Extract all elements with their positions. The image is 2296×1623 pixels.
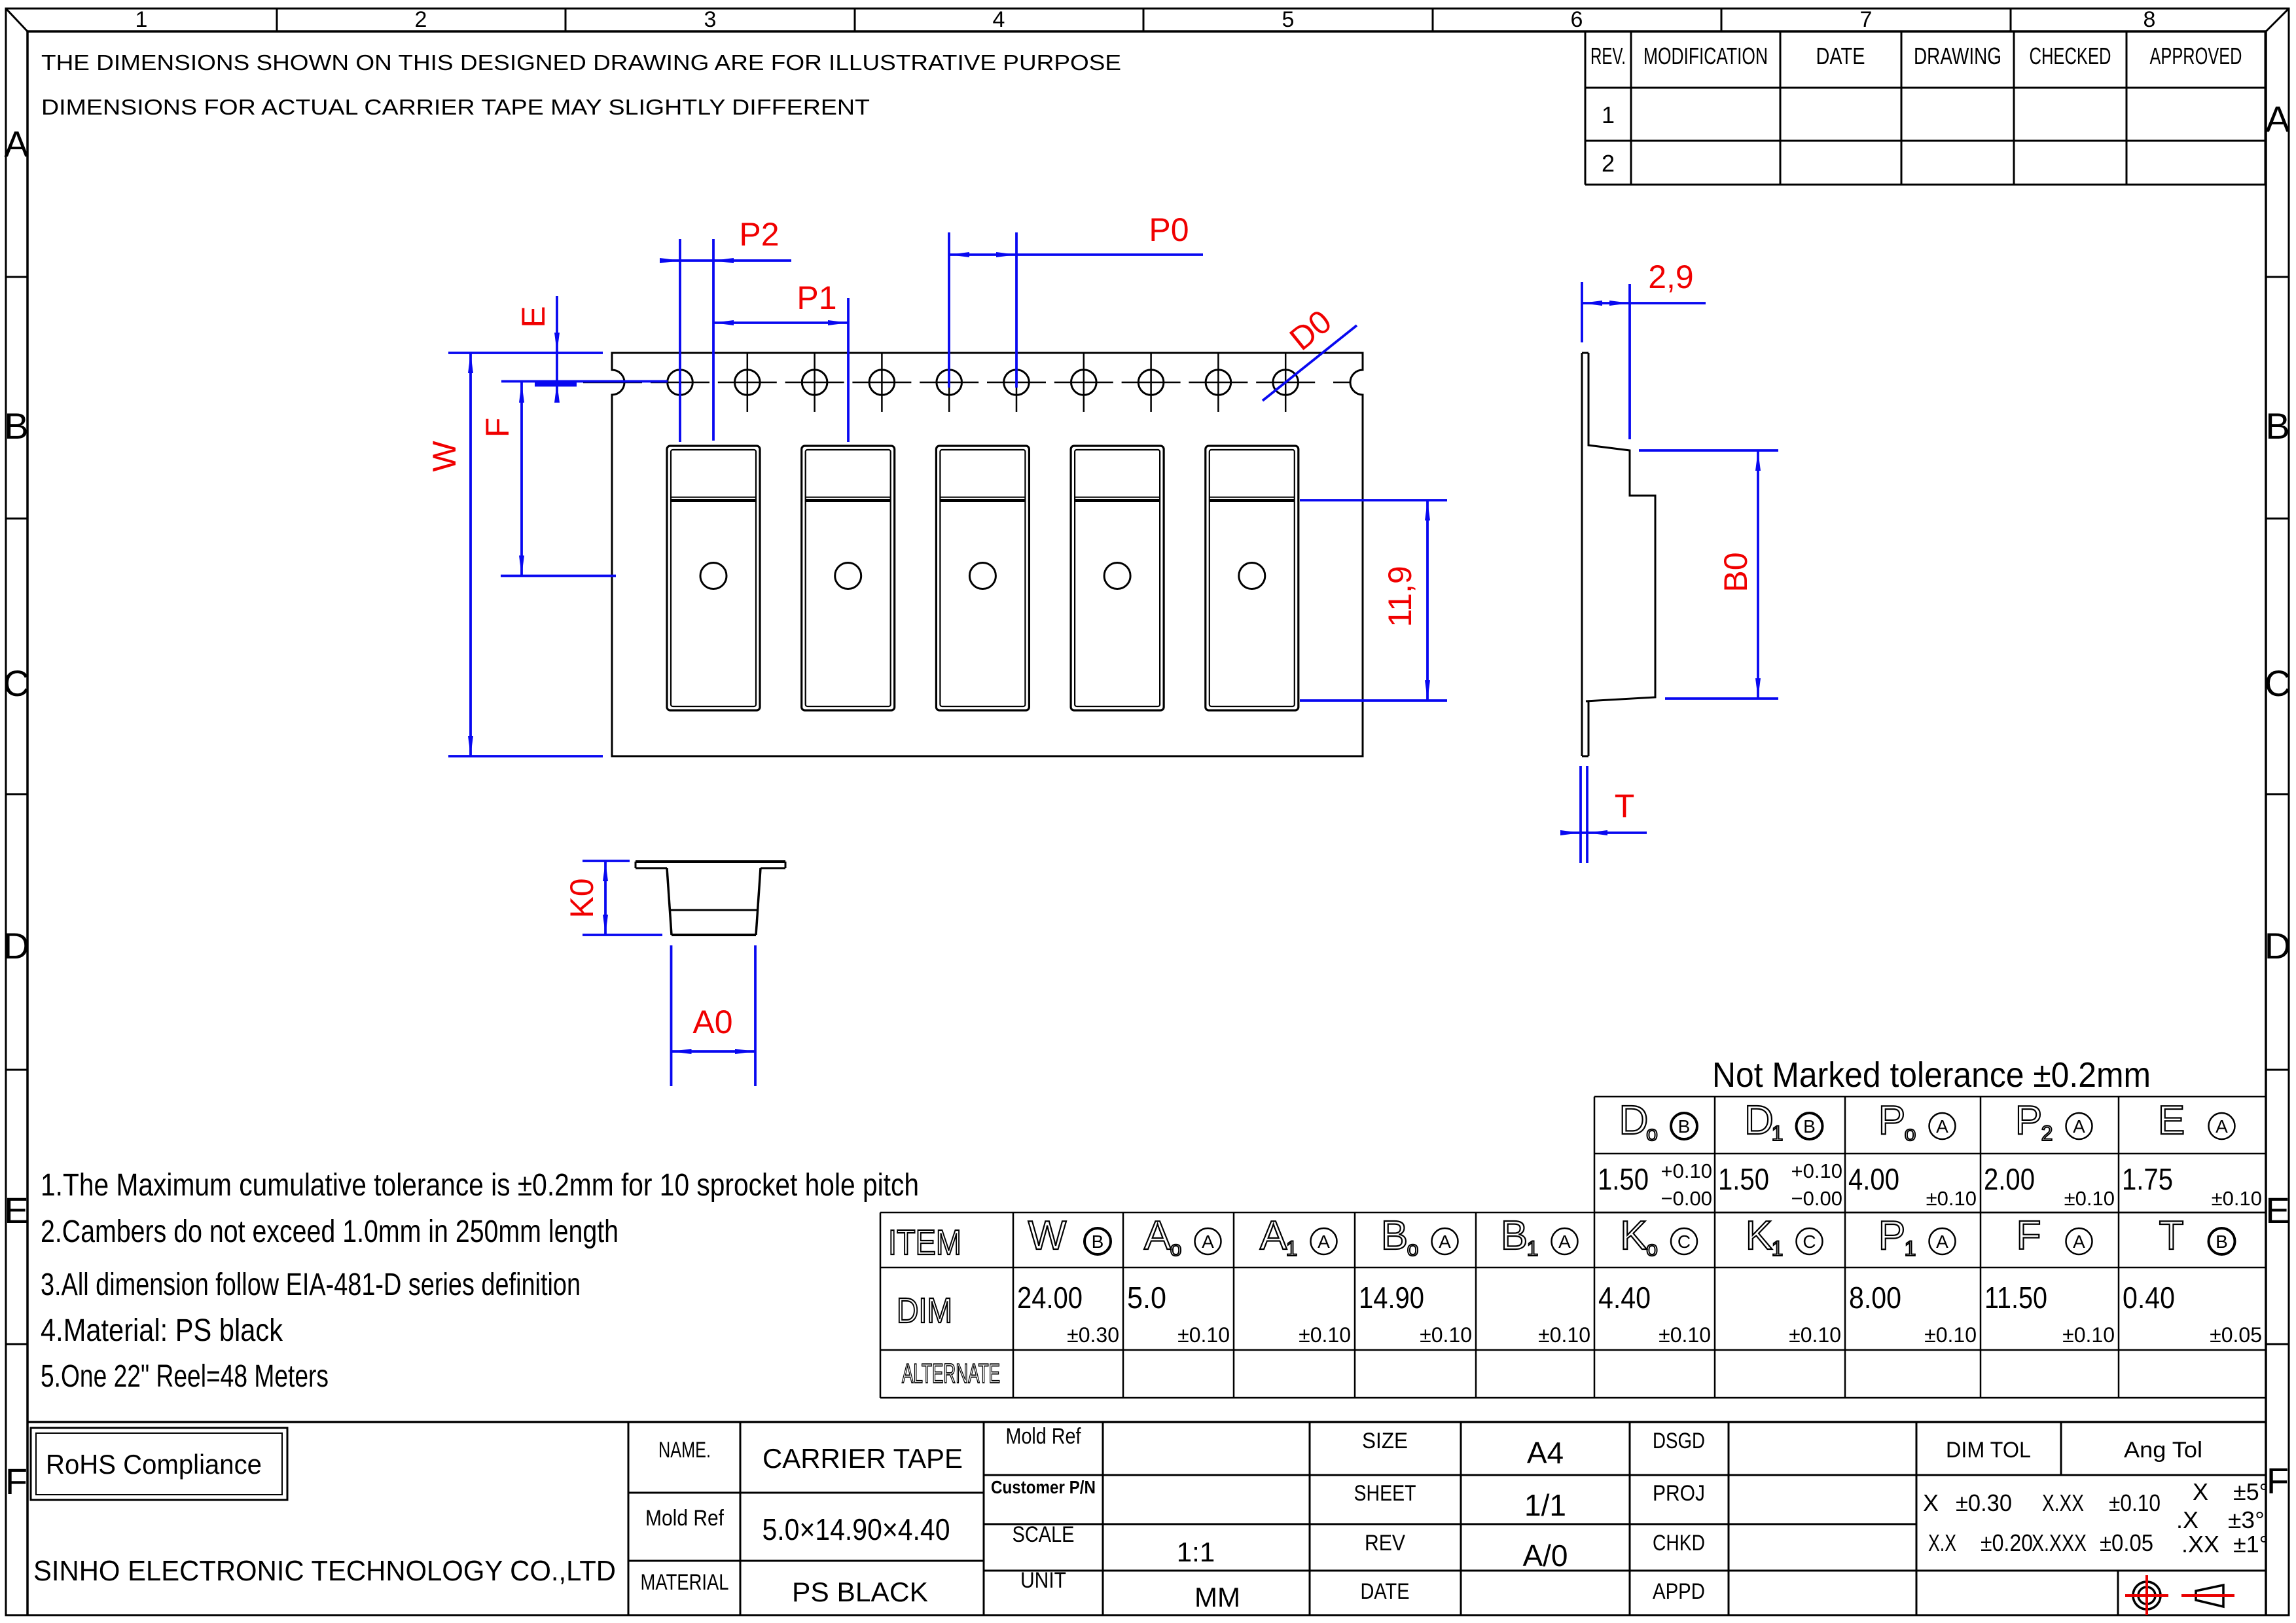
svg-text:A: A (1936, 1116, 1948, 1137)
svg-text:D: D (3, 925, 29, 966)
svg-text:1.50: 1.50 (1598, 1162, 1649, 1196)
carrier tape side profile (1582, 353, 1655, 756)
svg-text:P0: P0 (1149, 211, 1189, 248)
dim W extension top (448, 352, 603, 354)
dim E thick bar (535, 381, 577, 387)
svg-text:RoHS Compliance: RoHS Compliance (46, 1449, 262, 1480)
svg-text:X.XXX: X.XXX (2032, 1529, 2087, 1556)
dim P0 ext line hole6 (1015, 232, 1018, 388)
svg-text:3: 3 (704, 7, 717, 32)
svg-text:CHECKED: CHECKED (2030, 43, 2111, 69)
svg-text:24.00: 24.00 (1017, 1281, 1083, 1315)
svg-text:A: A (1936, 1231, 1948, 1252)
svg-text:MATERIAL: MATERIAL (641, 1570, 729, 1595)
svg-text:−0.00: −0.00 (1791, 1187, 1842, 1210)
svg-text:W: W (426, 441, 463, 472)
svg-text:DSGD: DSGD (1653, 1429, 1705, 1453)
svg-text:1: 1 (1286, 1237, 1298, 1260)
svg-text:B: B (4, 405, 28, 447)
svg-text:Ang Tol: Ang Tol (2124, 1438, 2202, 1463)
svg-text:2: 2 (415, 7, 427, 32)
dim F extension bottom (501, 575, 616, 577)
dim P0 line (949, 253, 1203, 256)
projection symbol target (2133, 1582, 2161, 1609)
svg-text:CARRIER TAPE: CARRIER TAPE (762, 1443, 963, 1474)
svg-text:B: B (2265, 405, 2289, 447)
svg-text:Mold Ref: Mold Ref (1006, 1424, 1081, 1449)
dim E extension at hole line (501, 380, 668, 383)
revision table grid (1585, 32, 2265, 185)
svg-text:±1°: ±1° (2233, 1531, 2269, 1558)
dim A0 ext right (754, 945, 757, 1086)
zone tick top 6 (1721, 9, 1723, 31)
svg-text:7: 7 (1860, 7, 1873, 32)
svg-text:2,9: 2,9 (1648, 259, 1694, 295)
dim 11,9 ext top (1300, 499, 1447, 501)
title block grid (27, 1422, 2266, 1614)
svg-text:P1: P1 (797, 280, 836, 316)
upper dimension table grid (1594, 1097, 2266, 1213)
svg-text:X: X (2193, 1478, 2208, 1505)
svg-text:A: A (1558, 1231, 1571, 1252)
dim 2,9 ext right (1628, 284, 1631, 439)
dim P1 line (713, 321, 848, 324)
svg-text:D: D (1744, 1098, 1774, 1143)
dim P2 ext line pocket1 (712, 239, 715, 441)
dim K0 line (604, 861, 607, 935)
carrier tape outline (top view) (612, 353, 1363, 756)
svg-text:6: 6 (1571, 7, 1583, 32)
svg-text:K: K (1620, 1213, 1647, 1258)
svg-text:4: 4 (993, 7, 1005, 32)
svg-text:P: P (1878, 1213, 1905, 1258)
svg-text:UNIT: UNIT (1020, 1568, 1066, 1593)
svg-text:APPD: APPD (1653, 1579, 1705, 1604)
svg-text:SHEET: SHEET (1354, 1481, 1416, 1506)
svg-text:B: B (1501, 1213, 1528, 1258)
svg-text:1:1: 1:1 (1177, 1537, 1215, 1567)
zone tick right 1 (2266, 276, 2289, 278)
svg-text:P2: P2 (739, 216, 779, 253)
svg-text:D: D (1619, 1098, 1649, 1143)
corner diagonal top-right (2266, 9, 2289, 31)
svg-text:A: A (1318, 1231, 1330, 1252)
zone tick right 3 (2266, 793, 2289, 795)
svg-text:K: K (1746, 1213, 1772, 1258)
zone tick top 7 (2010, 9, 2012, 31)
svg-text:P: P (2015, 1098, 2042, 1143)
svg-text:2: 2 (1602, 150, 1615, 177)
svg-text:A: A (2073, 1231, 2085, 1252)
svg-text:Customer P/N: Customer P/N (991, 1477, 1096, 1497)
zone tick top 3 (854, 9, 856, 31)
svg-text:±0.10: ±0.10 (1299, 1323, 1351, 1347)
svg-text:1.The Maximum cumulative toler: 1.The Maximum cumulative tolerance is ±0… (41, 1168, 919, 1203)
svg-text:4.Material: PS black: 4.Material: PS black (41, 1313, 283, 1348)
svg-text:±0.20: ±0.20 (1981, 1529, 2033, 1556)
zone tick top 5 (1432, 9, 1434, 31)
zone tick right 5 (2266, 1343, 2289, 1345)
svg-text:1: 1 (1527, 1237, 1539, 1260)
svg-text:11.50: 11.50 (1984, 1281, 2047, 1315)
svg-text:±0.10: ±0.10 (2109, 1489, 2161, 1516)
svg-text:MM: MM (1194, 1582, 1240, 1613)
svg-text:A/0: A/0 (1522, 1539, 1568, 1573)
svg-text:ITEM: ITEM (888, 1223, 961, 1262)
dim F line (520, 382, 523, 576)
svg-text:8.00: 8.00 (1849, 1281, 1901, 1315)
pocket cross-section (636, 862, 785, 935)
svg-text:A: A (2265, 98, 2290, 139)
svg-text:5.One 22" Reel=48 Meters: 5.One 22" Reel=48 Meters (41, 1359, 329, 1394)
zone tick left 1 (6, 276, 27, 278)
svg-text:+0.10: +0.10 (1661, 1159, 1712, 1182)
dim 2,9 ext left (1581, 282, 1583, 342)
svg-text:o: o (1905, 1122, 1916, 1145)
svg-text:±0.30: ±0.30 (1956, 1489, 2012, 1516)
zone tick top 4 (1143, 9, 1145, 31)
svg-text:B: B (1803, 1116, 1816, 1137)
dim 11,9 ext bottom (1300, 699, 1447, 702)
svg-text:B: B (1381, 1213, 1408, 1258)
svg-text:B: B (2215, 1231, 2228, 1252)
svg-text:±0.30: ±0.30 (1067, 1323, 1119, 1347)
dim B0 ext bottom (1665, 697, 1778, 700)
svg-text:.X: .X (2176, 1506, 2198, 1533)
svg-text:Mold Ref: Mold Ref (645, 1506, 724, 1531)
svg-text:E: E (2158, 1098, 2185, 1143)
zone tick top 2 (565, 9, 567, 31)
svg-text:T: T (2159, 1213, 2184, 1258)
svg-text:±0.10: ±0.10 (1789, 1323, 1841, 1347)
svg-text:1.75: 1.75 (2122, 1162, 2173, 1196)
svg-text:−0.00: −0.00 (1661, 1187, 1712, 1210)
svg-text:A: A (2073, 1116, 2085, 1137)
svg-text:REV.: REV. (1590, 43, 1626, 69)
dim A0 line (672, 1050, 756, 1053)
svg-text:±0.10: ±0.10 (1538, 1323, 1590, 1347)
svg-text:T: T (1615, 788, 1635, 824)
zone tick left 3 (6, 793, 27, 795)
svg-text:o: o (1646, 1237, 1658, 1260)
dim E line (556, 296, 558, 403)
svg-text:1: 1 (1602, 101, 1615, 128)
pockets (5x) top view (667, 446, 1299, 710)
svg-text:SCALE: SCALE (1013, 1522, 1075, 1547)
dim P2 ext line hole1 (679, 239, 681, 442)
svg-text:PROJ: PROJ (1653, 1481, 1705, 1506)
svg-text:SINHO ELECTRONIC TECHNOLOGY CO: SINHO ELECTRONIC TECHNOLOGY CO.,LTD (33, 1555, 616, 1587)
dim P1 ext line pocket2 (847, 298, 850, 442)
svg-text:B0: B0 (1717, 552, 1754, 592)
svg-text:1: 1 (1772, 1122, 1784, 1145)
svg-text:A: A (2215, 1116, 2228, 1137)
svg-text:SIZE: SIZE (1362, 1429, 1408, 1453)
svg-text:ALTERNATE: ALTERNATE (902, 1358, 1000, 1389)
svg-text:C: C (2265, 663, 2291, 704)
svg-text:X.XX: X.XX (2042, 1489, 2084, 1516)
svg-text:MODIFICATION: MODIFICATION (1643, 43, 1768, 69)
svg-text:A: A (1202, 1231, 1214, 1252)
dim D0 leader line (1263, 325, 1357, 401)
svg-text:A: A (4, 123, 29, 164)
dim B0 line (1757, 450, 1759, 699)
corner diagonal top-left (6, 9, 27, 31)
svg-text:DRAWING: DRAWING (1914, 43, 2001, 69)
svg-text:DIMENSIONS FOR ACTUAL CARRIER: DIMENSIONS FOR ACTUAL CARRIER TAPE MAY S… (41, 95, 870, 119)
dim 11,9 line (1426, 500, 1429, 701)
svg-text:NAME.: NAME. (658, 1438, 711, 1463)
zone tick right 4 (2266, 1069, 2289, 1071)
dim P0 ext line hole5 (948, 232, 950, 388)
svg-text:.XX: .XX (2181, 1531, 2219, 1558)
svg-text:8: 8 (2144, 7, 2156, 32)
svg-text:1: 1 (1772, 1237, 1784, 1260)
svg-text:K0: K0 (564, 878, 600, 918)
svg-text:2.00: 2.00 (1984, 1162, 2035, 1196)
zone tick right 2 (2266, 518, 2289, 520)
svg-text:o: o (1646, 1122, 1658, 1145)
svg-text:±0.10: ±0.10 (2212, 1187, 2262, 1210)
svg-text:+0.10: +0.10 (1791, 1159, 1842, 1182)
sprocket holes D0 with crosshairs (668, 354, 1299, 412)
dim B0 ext top (1639, 449, 1778, 452)
lower dimension table grid (880, 1213, 2266, 1398)
svg-text:±0.10: ±0.10 (1659, 1323, 1711, 1347)
svg-text:A0: A0 (692, 1004, 732, 1040)
svg-text:±0.10: ±0.10 (1177, 1323, 1230, 1347)
svg-text:D: D (2265, 925, 2291, 966)
svg-text:1: 1 (1905, 1237, 1916, 1260)
svg-text:A: A (1439, 1231, 1451, 1252)
dim A0 ext left (670, 945, 673, 1086)
zone tick left 2 (6, 518, 27, 520)
svg-text:DATE: DATE (1361, 1579, 1410, 1604)
svg-text:CHKD: CHKD (1653, 1531, 1705, 1556)
svg-text:±0.10: ±0.10 (2062, 1323, 2115, 1347)
dim T line (1564, 831, 1647, 834)
svg-text:F: F (5, 1461, 27, 1502)
zone tick top 1 (276, 9, 278, 31)
svg-text:±0.10: ±0.10 (1420, 1323, 1472, 1347)
svg-text:C: C (3, 663, 29, 704)
svg-text:A4: A4 (1527, 1436, 1564, 1470)
svg-text:A: A (1260, 1213, 1287, 1258)
svg-text:F: F (2017, 1213, 2041, 1258)
dim P2 line (662, 259, 791, 262)
svg-text:2: 2 (2041, 1122, 2053, 1145)
svg-text:REV: REV (1365, 1531, 1405, 1556)
svg-text:14.90: 14.90 (1359, 1281, 1424, 1315)
svg-text:o: o (1170, 1237, 1182, 1260)
svg-text:C: C (1803, 1231, 1816, 1252)
zone tick left 4 (6, 1069, 27, 1071)
svg-text:DIM: DIM (897, 1291, 952, 1330)
svg-text:2.Cambers do not exceed 1.0mm: 2.Cambers do not exceed 1.0mm in 250mm l… (41, 1214, 619, 1249)
svg-text:±0.10: ±0.10 (1924, 1323, 1977, 1347)
dim W extension bottom (448, 755, 603, 757)
sprocket hole centerline (dashed) (583, 382, 1350, 384)
svg-text:5.0: 5.0 (1127, 1281, 1166, 1315)
dim W line (469, 353, 472, 756)
svg-text:PS BLACK: PS BLACK (792, 1577, 928, 1607)
svg-text:E: E (515, 306, 552, 327)
dim T ext right (1586, 766, 1588, 863)
svg-text:4.00: 4.00 (1848, 1162, 1899, 1196)
dim K0 ext top (583, 860, 630, 862)
svg-text:W: W (1028, 1213, 1067, 1258)
svg-text:±0.10: ±0.10 (2064, 1187, 2115, 1210)
svg-text:1.50: 1.50 (1718, 1162, 1769, 1196)
svg-text:±0.05: ±0.05 (2210, 1323, 2262, 1347)
dim 2,9 line (1582, 302, 1706, 304)
svg-text:B: B (1678, 1116, 1691, 1137)
svg-text:±3°: ±3° (2228, 1506, 2265, 1533)
svg-text:C: C (1677, 1231, 1691, 1252)
dim K0 ext bottom (583, 934, 662, 936)
svg-text:3.All dimension follow EIA-481: 3.All dimension follow EIA-481-D series … (41, 1267, 581, 1302)
svg-text:APPROVED: APPROVED (2150, 43, 2242, 69)
svg-text:11,9: 11,9 (1382, 566, 1418, 627)
svg-text:±0.10: ±0.10 (1926, 1187, 1977, 1210)
svg-text:X.X: X.X (1928, 1529, 1956, 1556)
svg-text:Not Marked tolerance ±0.2mm: Not Marked tolerance ±0.2mm (1712, 1055, 2151, 1095)
svg-text:B: B (1092, 1231, 1104, 1252)
projection symbol cone (2196, 1585, 2223, 1607)
dim T ext left (1579, 766, 1582, 863)
svg-text:F: F (479, 418, 516, 438)
svg-text:o: o (1407, 1237, 1419, 1260)
svg-text:F: F (2267, 1460, 2289, 1501)
svg-text:4.40: 4.40 (1598, 1281, 1651, 1315)
svg-text:P: P (1878, 1098, 1905, 1143)
svg-text:±5°: ±5° (2233, 1478, 2269, 1505)
RoHS compliance box (31, 1428, 287, 1500)
svg-text:E: E (4, 1190, 28, 1231)
svg-text:X: X (1923, 1489, 1939, 1516)
svg-text:DATE: DATE (1816, 43, 1865, 69)
svg-text:THE DIMENSIONS SHOWN ON THIS D: THE DIMENSIONS SHOWN ON THIS DESIGNED DR… (41, 50, 1121, 75)
svg-text:0.40: 0.40 (2123, 1281, 2175, 1315)
svg-text:±0.05: ±0.05 (2100, 1529, 2153, 1556)
svg-text:5: 5 (1282, 7, 1295, 32)
svg-text:1: 1 (135, 7, 148, 32)
svg-text:5.0×14.90×4.40: 5.0×14.90×4.40 (762, 1512, 950, 1546)
svg-text:DIM TOL: DIM TOL (1946, 1438, 2031, 1463)
svg-text:E: E (2265, 1190, 2289, 1231)
svg-text:1/1: 1/1 (1524, 1488, 1566, 1522)
svg-text:A: A (1144, 1213, 1172, 1258)
zone tick left 5 (6, 1343, 27, 1345)
